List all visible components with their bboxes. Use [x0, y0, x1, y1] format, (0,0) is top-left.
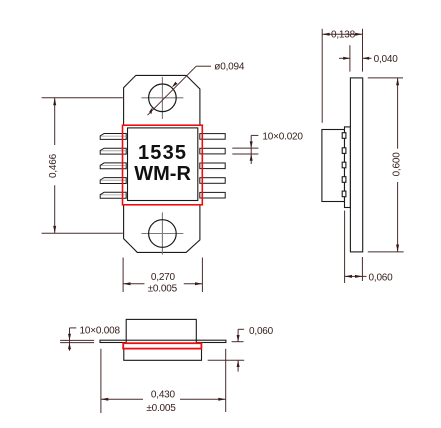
svg-text:0,060: 0,060 [369, 273, 394, 284]
svg-text:0,600: 0,600 [391, 152, 402, 177]
svg-text:±0.005: ±0.005 [146, 403, 176, 414]
svg-text:0,430: 0,430 [151, 390, 176, 401]
svg-text:0,040: 0,040 [374, 54, 399, 65]
svg-text:10×0.008: 10×0.008 [80, 325, 121, 336]
svg-text:0,060: 0,060 [249, 326, 274, 337]
svg-text:WM-R: WM-R [134, 163, 191, 185]
svg-text:0,466: 0,466 [48, 153, 59, 178]
svg-text:1535: 1535 [138, 142, 187, 164]
svg-text:10×0.020: 10×0.020 [262, 132, 303, 143]
svg-text:0,138: 0,138 [331, 30, 356, 41]
svg-text:ø0,094: ø0,094 [214, 62, 245, 73]
svg-text:0,270: 0,270 [151, 272, 176, 283]
svg-text:±0.005: ±0.005 [148, 284, 178, 295]
